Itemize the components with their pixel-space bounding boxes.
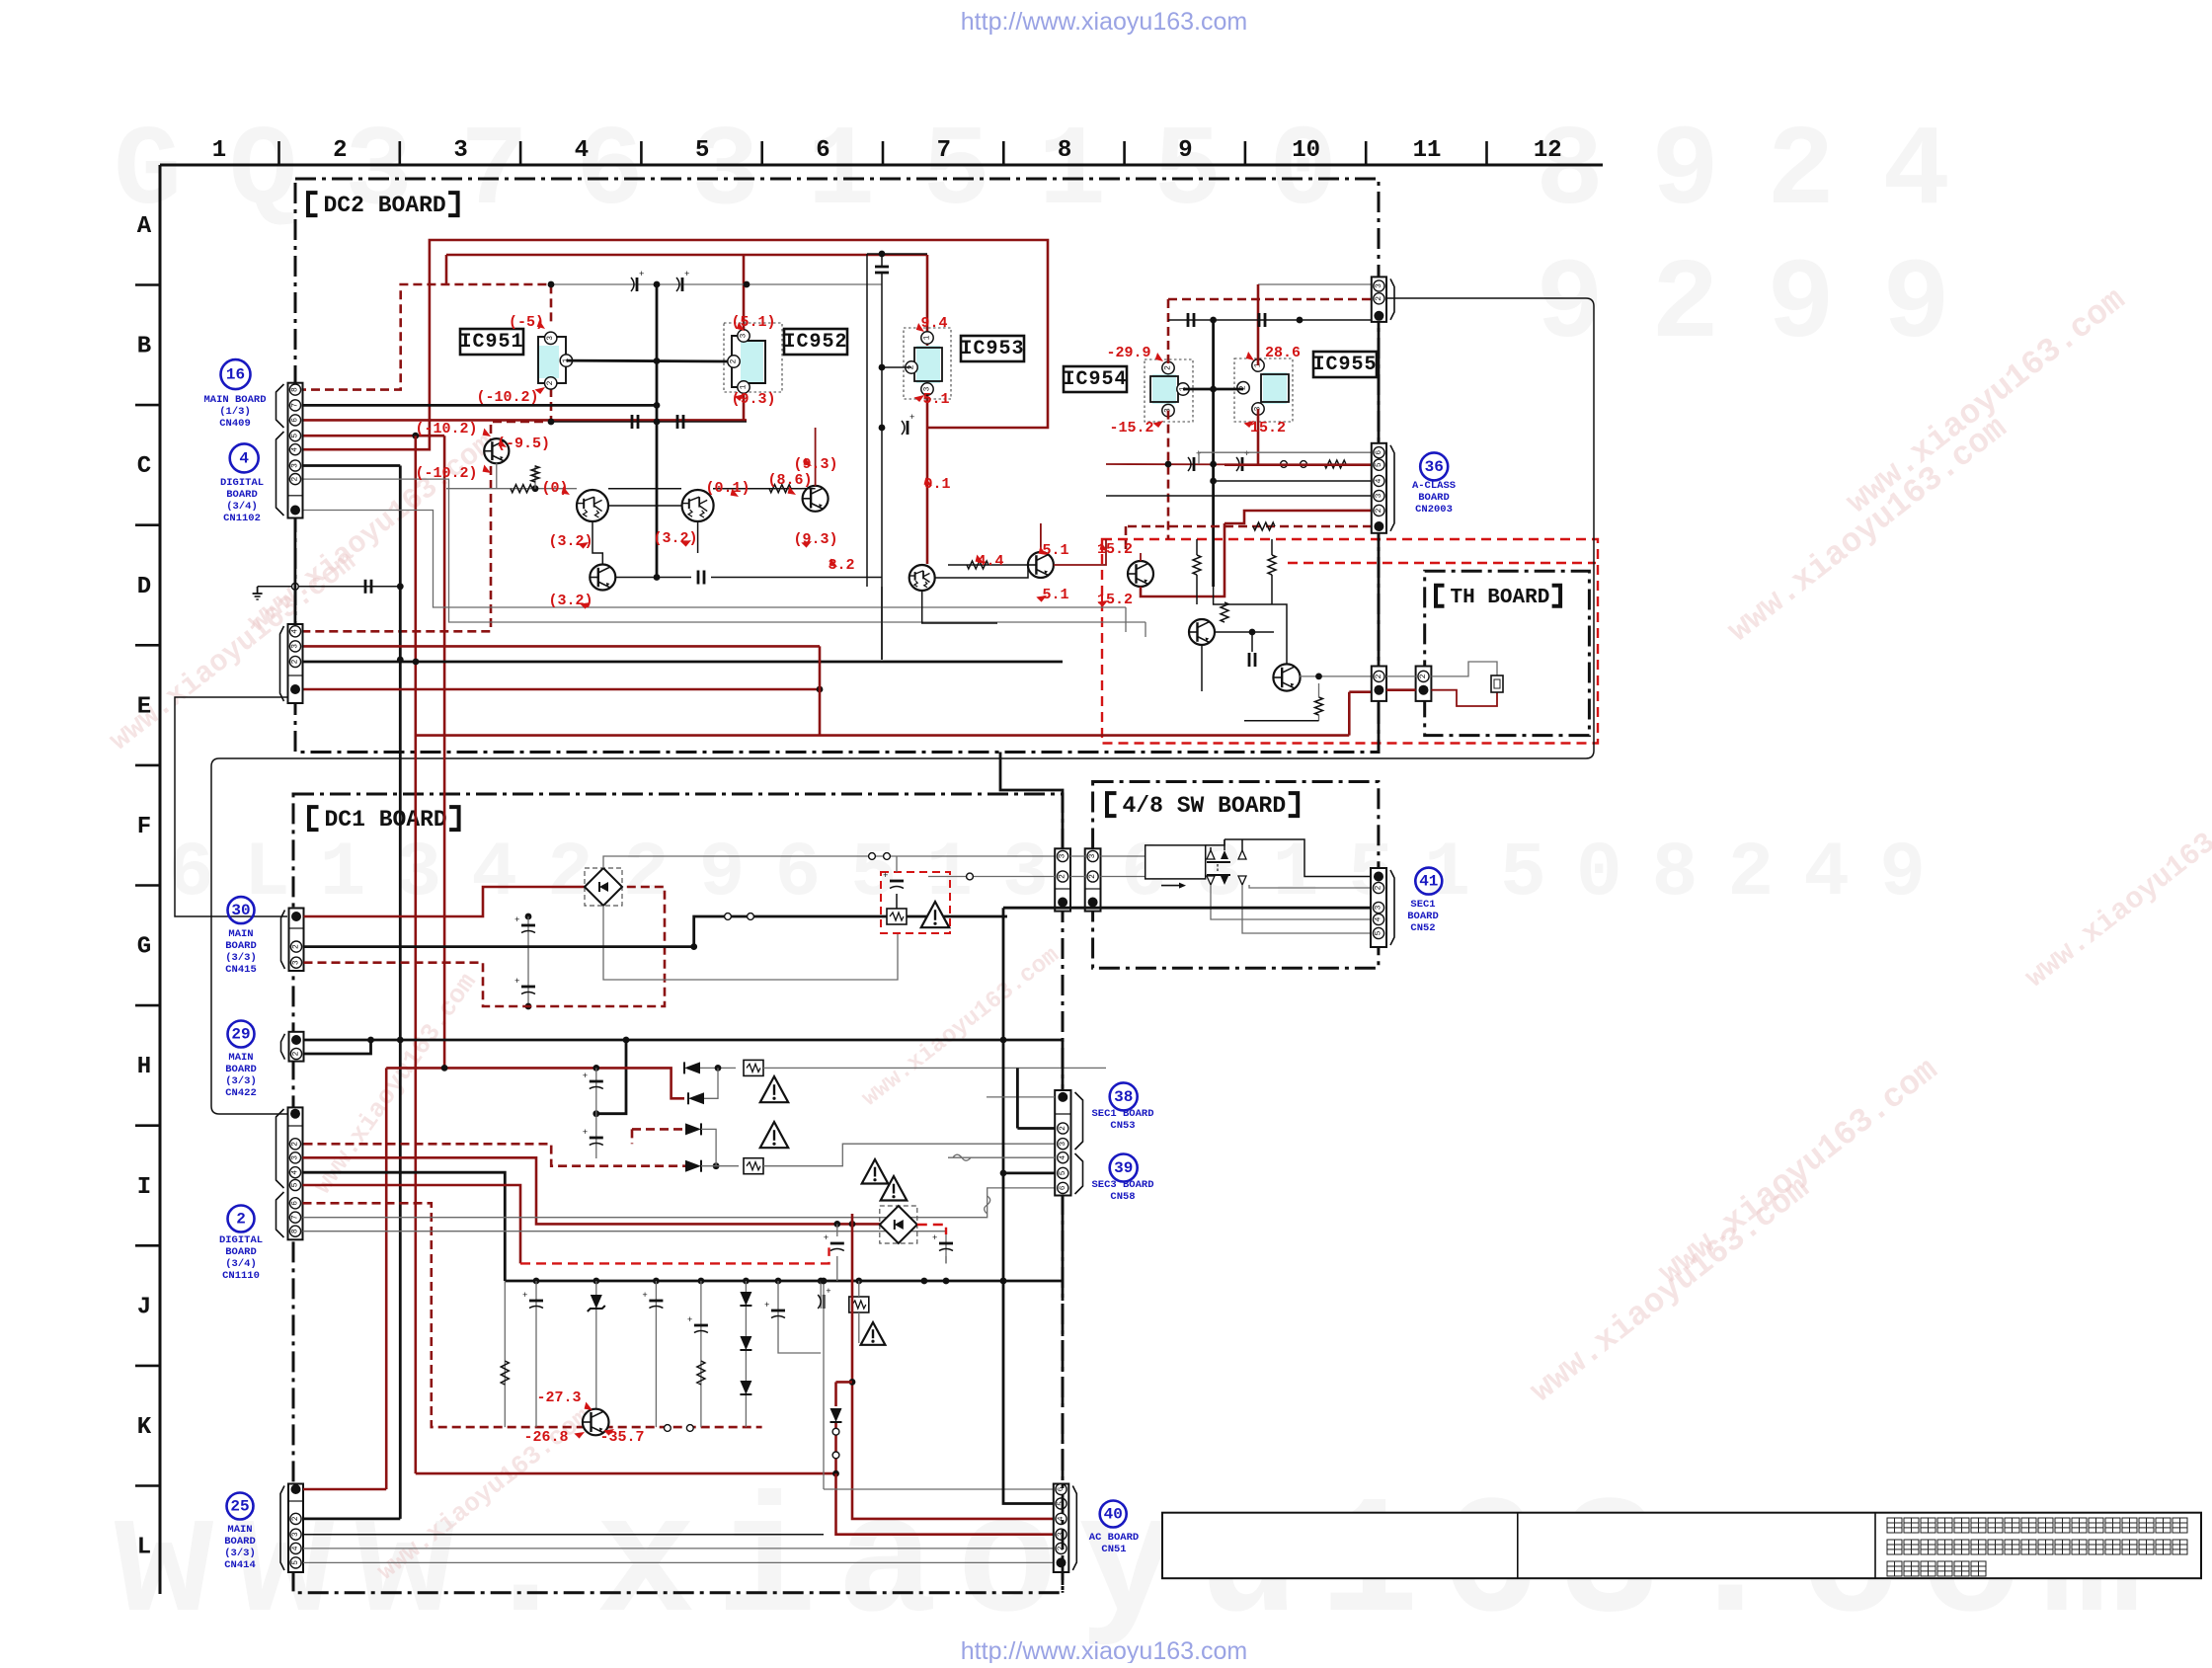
wire — [302, 511, 1126, 608]
IC label IC951 — [459, 329, 523, 355]
capacitor — [1259, 313, 1265, 327]
wire — [657, 577, 691, 579]
junction — [413, 659, 420, 666]
open node — [725, 913, 732, 920]
wire connector bus — [1378, 322, 1381, 442]
wire — [551, 421, 747, 423]
bracket CN409 — [276, 384, 284, 428]
wire SW thick rail — [1003, 907, 1371, 910]
ground — [253, 587, 263, 599]
connector ref 16 — [221, 359, 251, 389]
junction — [744, 281, 750, 288]
wire — [603, 856, 1055, 868]
junction — [592, 1110, 599, 1117]
wire — [496, 463, 498, 489]
electrolytic capacitor — [902, 413, 914, 435]
IC953 pin 2 — [906, 361, 917, 373]
svg-text:+: + — [883, 871, 888, 881]
svg-text:2: 2 — [546, 380, 555, 385]
wire — [802, 488, 816, 490]
svg-text:BOARD: BOARD — [1407, 911, 1439, 922]
wire — [1106, 495, 1372, 497]
svg-text:+: + — [642, 1291, 647, 1301]
wire — [303, 1172, 506, 1281]
svg-text:IC952: IC952 — [783, 331, 847, 354]
wire — [1206, 839, 1224, 845]
voltage value — [1265, 345, 1301, 361]
red arrow — [1244, 352, 1256, 362]
wire — [1125, 526, 1128, 553]
row tick — [135, 1124, 160, 1127]
svg-text:(3.2): (3.2) — [653, 530, 697, 547]
wire — [302, 435, 444, 437]
wire — [302, 240, 1048, 449]
voltage value — [731, 314, 775, 331]
capacitor — [677, 415, 683, 429]
diode — [740, 1336, 751, 1350]
svg-text:1: 1 — [740, 384, 749, 389]
connector label — [1091, 1179, 1153, 1203]
bridge rectifier D901 — [585, 868, 622, 906]
row tick — [135, 1004, 160, 1007]
junction — [833, 1221, 840, 1228]
wire — [824, 1488, 1054, 1490]
wire — [297, 284, 551, 390]
resistor — [967, 561, 988, 569]
regulator IC952 body — [732, 336, 765, 387]
connector CN2003 — [1372, 443, 1386, 533]
wire — [655, 1281, 657, 1427]
connector CN53/CN58 — [1055, 1090, 1070, 1196]
connector label — [225, 928, 257, 976]
connector label — [1412, 480, 1456, 516]
voltage value — [476, 389, 538, 406]
svg-text:11: 11 — [1413, 137, 1442, 164]
red arrow — [914, 392, 926, 403]
svg-text:6: 6 — [291, 418, 300, 423]
red arrow — [481, 429, 493, 439]
svg-text:41: 41 — [1419, 873, 1438, 891]
wire — [1224, 839, 1371, 877]
diode D914 — [685, 1123, 701, 1135]
junction — [623, 1037, 630, 1044]
voltage value — [541, 480, 568, 497]
IC954 pin 1 — [1177, 383, 1189, 395]
wire — [446, 254, 927, 257]
wire — [446, 488, 577, 490]
wire — [303, 1488, 386, 1491]
connector label — [1407, 899, 1439, 934]
row tick — [135, 283, 160, 286]
svg-text:E: E — [137, 693, 151, 720]
junction — [855, 1278, 862, 1285]
chinese note text — [1887, 1561, 1986, 1576]
wire — [694, 916, 1007, 947]
connector ref 36 — [1420, 452, 1448, 480]
wire — [302, 464, 400, 467]
junction — [713, 1162, 720, 1169]
board label 4/8 SW — [1107, 793, 1298, 819]
junction — [397, 583, 404, 590]
svg-text:2: 2 — [291, 1142, 300, 1147]
junction — [690, 943, 697, 950]
bracket CN53 — [1075, 1092, 1083, 1150]
transistor Q954 — [590, 565, 615, 591]
svg-text:1: 1 — [212, 137, 226, 164]
svg-text:-15.2: -15.2 — [1109, 420, 1153, 437]
wire — [867, 253, 927, 255]
svg-text:9.4: 9.4 — [920, 315, 947, 332]
wire — [858, 1281, 860, 1297]
connector ref 4 — [230, 443, 259, 472]
svg-text:5.1: 5.1 — [1042, 587, 1068, 603]
connector label — [225, 1052, 257, 1099]
diode — [740, 1292, 751, 1306]
svg-text:5: 5 — [291, 1182, 300, 1187]
transistor Q953 (darlington) — [682, 490, 714, 521]
connector ref 40 — [1100, 1501, 1127, 1528]
relay box — [1145, 845, 1206, 879]
wire — [823, 1281, 825, 1489]
bracket to A-CLASS upper — [1390, 278, 1394, 320]
svg-text:3: 3 — [740, 333, 749, 338]
svg-text:5: 5 — [695, 137, 709, 164]
connector TH-A — [1372, 667, 1386, 701]
svg-text:6: 6 — [1059, 1185, 1067, 1190]
wire long black bus — [399, 466, 402, 1519]
svg-text:4: 4 — [291, 447, 300, 452]
resistor — [1268, 555, 1276, 575]
voltage value — [536, 1390, 581, 1406]
wire — [302, 645, 820, 648]
wire — [851, 1214, 854, 1224]
ruler tick — [1244, 141, 1247, 165]
junction — [397, 1037, 404, 1044]
capacitor — [764, 1301, 785, 1318]
wire thermistor top — [1431, 662, 1497, 676]
resistor — [1221, 602, 1228, 622]
svg-text:2: 2 — [1375, 508, 1383, 513]
resistor — [501, 1361, 509, 1385]
svg-text:6: 6 — [291, 1201, 300, 1206]
fusible resistor — [849, 1297, 869, 1312]
wire — [763, 1067, 1106, 1069]
wire — [1271, 539, 1273, 555]
wire — [1070, 855, 1085, 857]
warning triangle — [881, 1176, 908, 1201]
wire — [1106, 463, 1372, 466]
svg-text:38: 38 — [1114, 1088, 1133, 1106]
wire — [551, 283, 882, 285]
wire — [763, 1144, 1055, 1166]
svg-text:12: 12 — [1534, 137, 1562, 164]
wire — [1224, 839, 1225, 850]
capacitor — [583, 1128, 603, 1146]
capacitor — [932, 1233, 953, 1251]
red arrow — [729, 489, 741, 500]
IC954 pin 2 — [1162, 361, 1174, 373]
voltage value — [548, 533, 592, 550]
svg-text:2: 2 — [292, 1051, 301, 1056]
red arrow — [603, 1426, 615, 1437]
wire — [701, 1165, 739, 1167]
svg-text:+: + — [522, 1291, 527, 1301]
fuse — [985, 1196, 990, 1214]
wire — [535, 1281, 537, 1427]
svg-text:30: 30 — [231, 902, 250, 919]
zener diode — [588, 1295, 605, 1311]
warning triangle — [861, 1322, 886, 1345]
relay arrow — [1161, 885, 1179, 887]
junction — [654, 281, 661, 288]
bracket CN1110b — [276, 1192, 284, 1237]
wire — [711, 577, 882, 579]
connector CN51 — [1054, 1483, 1069, 1572]
bracket CN51 — [1072, 1486, 1076, 1571]
wire — [302, 419, 747, 422]
IC953 pin 1 — [921, 332, 933, 344]
svg-text:BOARD: BOARD — [225, 940, 257, 952]
warning triangle — [760, 1122, 788, 1148]
svg-text:2: 2 — [1059, 1126, 1067, 1131]
open node — [869, 853, 876, 860]
safety dashed box — [1102, 539, 1598, 744]
svg-text:7: 7 — [291, 403, 300, 408]
junction — [548, 419, 555, 426]
svg-text:D: D — [137, 574, 151, 600]
connector ref 29 — [228, 1021, 255, 1048]
junction — [1297, 317, 1303, 324]
svg-text:10: 10 — [1292, 137, 1320, 164]
connector ref 2 — [228, 1206, 255, 1232]
safety dashed component box — [881, 872, 950, 933]
red arrow — [497, 439, 509, 450]
junction — [1315, 674, 1322, 680]
red arrow — [1097, 597, 1109, 608]
svg-text:CN415: CN415 — [225, 964, 257, 976]
wire vertical bus — [656, 284, 659, 578]
svg-text:B: B — [137, 334, 151, 360]
red arrow — [914, 323, 926, 334]
svg-text:AC BOARD: AC BOARD — [1089, 1532, 1139, 1544]
voltage value — [828, 557, 854, 574]
wire — [1062, 1040, 1065, 1090]
voltage value — [1106, 345, 1150, 361]
voltage value — [509, 314, 544, 331]
svg-text:www.xiaoyu163.com: www.xiaoyu163.com — [857, 942, 1065, 1112]
wire loop harness — [211, 298, 1594, 1114]
svg-text:IC953: IC953 — [960, 338, 1024, 360]
row tick — [135, 884, 160, 887]
svg-text:2: 2 — [1375, 296, 1383, 301]
ruler tick — [1485, 141, 1488, 165]
resistor on dashed rail — [0, 0, 1, 1]
junction — [715, 1065, 722, 1072]
electrolytic capacitor — [1188, 449, 1201, 471]
svg-text:2: 2 — [1088, 874, 1097, 879]
wire dashed — [520, 1247, 829, 1263]
svg-text:BOARD: BOARD — [1418, 492, 1450, 504]
wire — [566, 359, 728, 363]
wire dashed loop — [304, 887, 666, 1006]
junction — [654, 402, 661, 409]
svg-text:-29.9: -29.9 — [1106, 345, 1150, 361]
junction — [849, 1221, 856, 1228]
wire — [697, 521, 699, 553]
chinese note text — [1887, 1540, 2187, 1554]
resistor — [1324, 460, 1346, 468]
voltage value — [793, 531, 837, 548]
svg-text:-27.3: -27.3 — [536, 1390, 581, 1406]
voltage value — [731, 391, 775, 408]
junction — [818, 1278, 825, 1285]
capacitor — [514, 915, 535, 933]
svg-text:+: + — [826, 1287, 830, 1297]
svg-text:1: 1 — [923, 335, 932, 340]
wire — [1318, 715, 1320, 721]
wire — [834, 1423, 837, 1473]
svg-text:+: + — [687, 1315, 692, 1325]
IC955 pin 1 — [1252, 359, 1264, 371]
svg-text:6: 6 — [1375, 450, 1383, 455]
voltage value — [1250, 420, 1286, 437]
wire — [1242, 885, 1372, 933]
open node — [665, 1425, 671, 1432]
wire — [948, 564, 1028, 566]
row tick — [135, 764, 160, 767]
IC952 pin 2 — [728, 356, 740, 367]
svg-text:H: H — [137, 1054, 151, 1080]
wire — [1210, 847, 1212, 850]
svg-text:9: 9 — [1178, 137, 1192, 164]
svg-text:63151508249: 63151508249 — [1121, 831, 1955, 917]
red arrow — [680, 537, 692, 548]
wire — [302, 404, 657, 407]
svg-text:GQ376315150: GQ376315150 — [114, 108, 1384, 237]
wire — [1318, 683, 1320, 697]
red arrow — [922, 478, 934, 489]
junction — [1000, 1278, 1007, 1285]
svg-text:G: G — [137, 934, 151, 961]
ruler top line — [160, 164, 1603, 167]
svg-text:SEC1: SEC1 — [1410, 899, 1435, 911]
voltage value — [497, 436, 550, 452]
svg-text:DC1 BOARD: DC1 BOARD — [325, 807, 447, 833]
fusible resistor — [744, 1158, 763, 1174]
board label DC1 — [309, 807, 459, 833]
wire vertical bus — [1212, 320, 1215, 587]
svg-text:3: 3 — [1059, 1142, 1067, 1147]
svg-text:2: 2 — [236, 1211, 246, 1229]
svg-text:6: 6 — [1057, 1486, 1066, 1491]
wire — [1126, 525, 1372, 528]
wire — [1214, 587, 1287, 664]
diode D911 — [684, 1062, 700, 1073]
red arrow — [974, 555, 986, 566]
open node — [1301, 461, 1307, 468]
junction — [821, 1278, 828, 1285]
junction — [533, 1278, 540, 1285]
bracket CN52 — [1390, 870, 1394, 945]
wire — [386, 1068, 684, 1098]
svg-text:CN409: CN409 — [219, 418, 251, 430]
svg-text:IC955: IC955 — [1312, 354, 1377, 376]
wire — [1271, 575, 1273, 604]
row tick — [135, 404, 160, 407]
wire — [896, 856, 898, 872]
svg-text:4: 4 — [291, 1170, 300, 1175]
junction — [1210, 478, 1217, 485]
svg-text:www.xiaoyu163.com: www.xiaoyu163.com — [2019, 783, 2212, 995]
junction — [817, 686, 824, 693]
junction — [879, 364, 886, 371]
svg-text:+: + — [1244, 449, 1249, 459]
svg-text:+: + — [909, 413, 914, 423]
wire — [1141, 523, 1224, 596]
wire — [303, 1518, 400, 1521]
voltage value — [922, 391, 949, 408]
capacitor — [583, 1072, 603, 1089]
svg-text:+: + — [514, 977, 519, 987]
svg-text:CN52: CN52 — [1410, 922, 1435, 934]
connector CN422 — [289, 1032, 304, 1062]
op-amp IC951 body — [537, 337, 566, 383]
IC951 pin 1 — [560, 355, 572, 366]
dotted outline IC954 — [1145, 359, 1193, 422]
dotted outline IC953 — [904, 328, 951, 399]
svg-text:(9.3): (9.3) — [731, 391, 775, 408]
wire maroon AC feed — [852, 1224, 1054, 1519]
svg-text:3: 3 — [1375, 493, 1383, 498]
svg-text:www.xiaoyu163.com: www.xiaoyu163.com — [1721, 410, 2014, 650]
red arrow — [828, 559, 839, 570]
wire — [303, 1157, 881, 1224]
svg-text:(3.2): (3.2) — [548, 533, 592, 550]
junction — [1000, 1037, 1007, 1044]
junction — [441, 1065, 448, 1072]
wire — [1214, 480, 1372, 482]
row tick — [135, 1365, 160, 1368]
wire long — [303, 1561, 1054, 1563]
wire — [820, 1281, 822, 1309]
svg-text:36: 36 — [1425, 458, 1444, 476]
voltage value — [705, 480, 750, 497]
electrolytic capacitor — [631, 270, 644, 291]
svg-text:(-10.2): (-10.2) — [476, 389, 538, 406]
voltage value — [1109, 420, 1153, 437]
red arrow — [481, 465, 493, 476]
wire — [1168, 298, 1372, 301]
resistor — [1253, 522, 1275, 530]
wire — [302, 388, 551, 631]
svg-text:+: + — [684, 270, 689, 279]
svg-text:7: 7 — [291, 1215, 300, 1220]
wire — [1196, 575, 1198, 604]
voltage value — [793, 456, 837, 473]
wire DC1 edge — [1062, 1281, 1065, 1593]
wire — [1215, 631, 1274, 633]
wire — [603, 906, 898, 980]
junction — [879, 425, 886, 432]
open node — [1281, 461, 1288, 468]
red arrow — [583, 1402, 594, 1413]
wire — [922, 591, 997, 623]
connector label — [203, 394, 266, 430]
red arrow — [735, 391, 747, 402]
junction — [1210, 317, 1217, 324]
wire dashed — [304, 1144, 686, 1165]
transistor Q960 — [1273, 664, 1300, 690]
